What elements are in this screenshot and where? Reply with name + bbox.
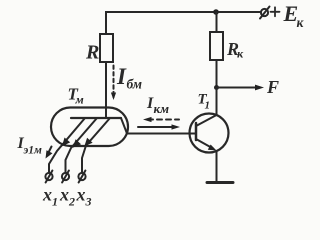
- terminal +Ek: [260, 7, 270, 19]
- svg-text:x: x: [42, 185, 52, 205]
- label Ie1m: [17, 135, 43, 157]
- svg-text:бм: бм: [127, 77, 142, 92]
- transistor Tm emitter 3: [82, 118, 110, 173]
- svg-text:x: x: [76, 185, 86, 205]
- wire R to Tm base: [105, 62, 107, 118]
- current arrow Ie1m: [46, 147, 53, 159]
- label Rk: [226, 39, 244, 61]
- terminal x3: [78, 171, 85, 183]
- label Ibm: [116, 64, 142, 92]
- svg-text:км: км: [154, 101, 170, 116]
- wire Rk branch: [216, 12, 218, 32]
- label +Ek: [271, 1, 305, 30]
- transistor T1 body: [190, 114, 229, 153]
- transistor Tm emitter 2: [66, 118, 98, 173]
- resistor Rk: [210, 32, 223, 60]
- label x1: [42, 185, 58, 209]
- label Tm: [68, 85, 84, 107]
- current arrow Ikm back (dashed): [143, 117, 179, 122]
- svg-text:x: x: [59, 185, 69, 205]
- wire emitter to ground: [216, 151, 218, 182]
- svg-text:1: 1: [205, 100, 211, 112]
- transistor T1 base bar: [195, 123, 198, 140]
- terminal x2: [62, 171, 69, 183]
- svg-text:к: к: [297, 15, 305, 30]
- transistor T1 collector lead: [196, 115, 217, 126]
- terminal x1: [45, 171, 52, 183]
- label T1: [198, 92, 211, 112]
- svg-text:R: R: [85, 42, 99, 64]
- transistor Tm base bar: [71, 117, 121, 119]
- svg-text:м: м: [75, 93, 84, 107]
- transistor T1 emitter lead: [196, 139, 217, 151]
- current arrow Ibm: [111, 66, 116, 101]
- current arrow Ikm forward: [138, 124, 180, 129]
- transistor Tm emitter 1: [49, 118, 85, 173]
- label x3: [76, 185, 92, 209]
- svg-text:F: F: [266, 77, 279, 97]
- label Ikm: [146, 95, 169, 116]
- transistor Tm multi-emitter body: [51, 108, 128, 147]
- wire collector T1: [216, 88, 218, 116]
- wire top rail: [106, 12, 261, 34]
- resistor R: [100, 34, 113, 62]
- wire F output arrow: [217, 85, 265, 91]
- node junction top: [213, 9, 219, 15]
- transistor Tm collector lead: [121, 118, 196, 134]
- label x2: [59, 185, 75, 209]
- svg-text:3: 3: [85, 195, 92, 209]
- svg-text:I: I: [116, 64, 127, 89]
- node junction F: [214, 85, 219, 90]
- svg-text:э1м: э1м: [23, 145, 43, 157]
- svg-text:2: 2: [68, 195, 75, 209]
- wire Rk to junction: [216, 60, 218, 88]
- svg-text:к: к: [237, 47, 244, 61]
- ground: [207, 181, 233, 184]
- svg-text:1: 1: [52, 195, 58, 209]
